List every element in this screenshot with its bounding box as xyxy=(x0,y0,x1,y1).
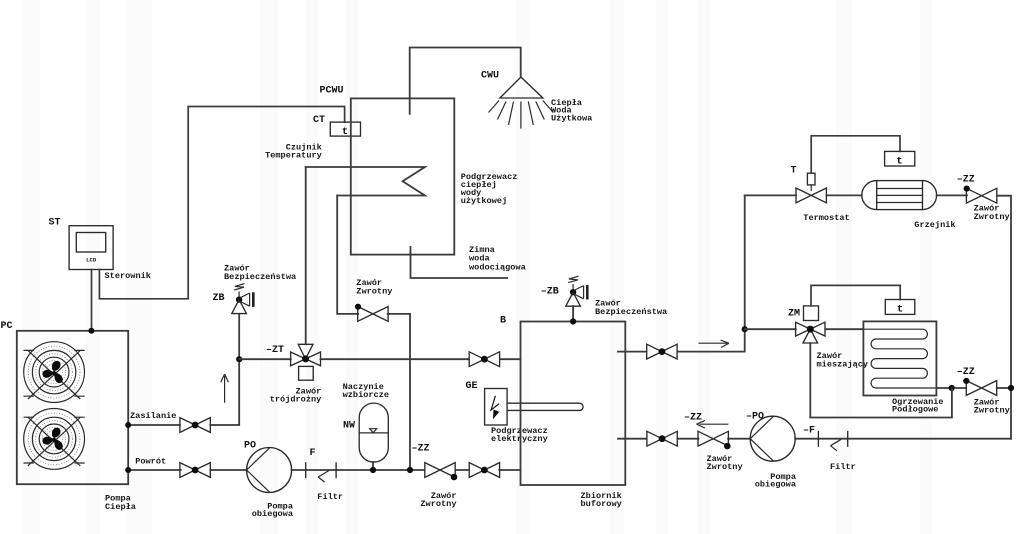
svg-text:Bezpieczeństwa: Bezpieczeństwa xyxy=(224,272,296,282)
svg-text:buforowy: buforowy xyxy=(581,499,622,509)
node trunk junction xyxy=(742,326,748,332)
wire ST to PC xyxy=(91,270,93,331)
svg-text:NW: NW xyxy=(343,421,355,432)
pipe coil supply riser xyxy=(305,167,307,344)
svg-text:–ZZ: –ZZ xyxy=(412,444,430,455)
PCWU tank xyxy=(351,98,455,254)
svg-text:–ZZ: –ZZ xyxy=(957,367,975,378)
pipe -ZB stub xyxy=(572,306,574,322)
node Zasilanie at PC xyxy=(125,422,131,428)
3-way valve -ZT xyxy=(291,344,321,366)
svg-text:trójdrożny: trójdrożny xyxy=(270,395,322,405)
heater GE box xyxy=(485,389,508,426)
riser ZB branch xyxy=(238,314,240,359)
shower head CWU xyxy=(500,77,543,98)
pump -PO xyxy=(750,416,795,461)
svg-text:T: T xyxy=(791,166,797,177)
floor heating serpentine xyxy=(863,329,936,388)
lightning bolt xyxy=(491,396,499,410)
buffer tank B xyxy=(521,322,626,486)
heating element in buffer xyxy=(507,403,583,410)
valve buffer supply out xyxy=(647,344,677,359)
filter -F xyxy=(818,431,847,447)
actuator box 3-way xyxy=(299,366,314,380)
svg-text:Zwrotny: Zwrotny xyxy=(356,286,392,296)
pipe Zasilanie xyxy=(128,359,239,425)
check valve ZZ radiator xyxy=(966,188,996,203)
pipe mixing bypass xyxy=(810,343,952,418)
pipe buffer right return xyxy=(618,438,1011,440)
svg-text:B: B xyxy=(500,316,506,327)
pipe radiator return down right trunk xyxy=(997,196,1011,439)
svg-text:Użytkowa: Użytkowa xyxy=(551,114,592,124)
svg-text:Zwrotny: Zwrotny xyxy=(420,499,456,509)
pipe coil return drop xyxy=(337,196,358,314)
actuator box ZM xyxy=(804,306,819,321)
svg-text:–PO: –PO xyxy=(746,412,764,423)
node right trunk junction xyxy=(1008,385,1014,391)
svg-text:t: t xyxy=(896,155,902,167)
svg-text:mieszający: mieszający xyxy=(817,360,869,370)
valve supply before buffer xyxy=(469,352,499,367)
svg-text:wzbiorcze: wzbiorcze xyxy=(343,390,389,400)
sensor t-box floor xyxy=(885,300,915,315)
expansion vessel NW xyxy=(359,403,388,462)
svg-text:GE: GE xyxy=(466,381,478,392)
pipe floor check to trunk xyxy=(997,387,1011,389)
svg-text:Temperatury: Temperatury xyxy=(265,151,322,161)
sensor CT box xyxy=(330,122,360,136)
thermostat valve T xyxy=(796,188,826,203)
node wire-PC xyxy=(88,328,94,334)
pipe radiator supply xyxy=(745,194,796,196)
node NW junction xyxy=(370,467,376,473)
svg-text:użytkowej: użytkowej xyxy=(461,196,507,206)
fan 1 xyxy=(23,342,84,403)
svg-text:ZB: ZB xyxy=(213,293,225,304)
svg-text:LCD: LCD xyxy=(86,257,97,264)
svg-text:F: F xyxy=(310,448,316,459)
floor heating box xyxy=(863,321,936,395)
svg-text:–ZZ: –ZZ xyxy=(957,175,975,186)
svg-text:Ciepła: Ciepła xyxy=(105,502,136,512)
svg-text:Zwrotny: Zwrotny xyxy=(707,462,743,472)
node floor return junction xyxy=(949,385,955,391)
svg-text:–F: –F xyxy=(803,426,815,437)
svg-text:ST: ST xyxy=(49,218,61,229)
pipe radiator to check valve xyxy=(937,194,967,196)
valve Powrot xyxy=(180,463,210,478)
svg-text:Termostat: Termostat xyxy=(803,213,849,223)
pipe supply main to 3way xyxy=(239,358,291,360)
svg-text:–ZZ: –ZZ xyxy=(684,413,702,424)
pump PO xyxy=(247,448,292,493)
svg-text:CWU: CWU xyxy=(481,71,499,82)
shower spray xyxy=(489,101,554,129)
pipe buffer right supply xyxy=(618,195,745,351)
heat pump PC box xyxy=(17,331,128,484)
node supply junction xyxy=(236,356,242,362)
svg-text:Filtr: Filtr xyxy=(317,492,343,502)
node Powrot at PC xyxy=(125,467,131,473)
svg-text:obiegowa: obiegowa xyxy=(755,480,796,490)
capillary T to t-box xyxy=(811,136,900,173)
controller ST box xyxy=(69,226,113,270)
safety valve ZB xyxy=(232,284,255,314)
pipe supply main to buffer xyxy=(321,358,521,360)
svg-text:–ZT: –ZT xyxy=(266,345,284,356)
valve return before buffer xyxy=(469,463,499,478)
arrow left flow xyxy=(697,420,729,428)
svg-text:t: t xyxy=(342,126,348,138)
node coil return junction xyxy=(407,467,413,473)
svg-text:CT: CT xyxy=(313,115,325,126)
pipe ZM branch xyxy=(745,328,796,330)
svg-text:Zwrotny: Zwrotny xyxy=(974,212,1010,222)
svg-text:Podłogowe: Podłogowe xyxy=(892,405,938,415)
svg-text:wodociągowa: wodociągowa xyxy=(469,262,526,272)
svg-text:obiegowa: obiegowa xyxy=(252,509,293,519)
svg-text:–ZB: –ZB xyxy=(541,286,559,297)
check valve ZZ coil return xyxy=(358,307,388,322)
svg-text:Filtr: Filtr xyxy=(830,462,856,472)
arrow right flow xyxy=(699,340,730,347)
filter F xyxy=(306,462,336,478)
pipe Powrot xyxy=(128,469,520,471)
svg-text:t: t xyxy=(897,304,903,316)
safety valve -ZB xyxy=(566,276,589,306)
valve Zasilanie xyxy=(180,418,210,433)
pipe NW stub xyxy=(372,462,374,470)
pipe coil return to crossing xyxy=(388,314,410,470)
svg-text:PCWU: PCWU xyxy=(320,86,344,97)
svg-text:Zasilanie: Zasilanie xyxy=(130,411,176,421)
svg-text:PO: PO xyxy=(244,441,256,452)
node at buffer top xyxy=(570,318,576,324)
node check valve ball xyxy=(355,304,361,310)
svg-text:Bezpieczeństwa: Bezpieczeństwa xyxy=(595,307,667,317)
pipe ZM to floor coil xyxy=(825,328,863,330)
svg-text:Powrót: Powrót xyxy=(135,457,166,467)
valve buffer return xyxy=(647,431,677,446)
radiator Grzejnik xyxy=(862,181,937,210)
pipe floor return xyxy=(936,387,966,389)
pipe CWU outlet to shower xyxy=(410,48,521,114)
mixing valve ZM xyxy=(796,322,825,343)
svg-text:Sterownik: Sterownik xyxy=(105,271,151,281)
check valve ZZ floor xyxy=(966,381,996,396)
svg-text:Grzejnik: Grzejnik xyxy=(914,220,955,230)
wire ST to CT sensor xyxy=(99,107,344,299)
fan 2 xyxy=(23,409,84,470)
check valve ZZ return xyxy=(425,463,455,478)
check valve ZZ before pump xyxy=(698,431,728,446)
svg-text:elektryczny: elektryczny xyxy=(491,434,548,444)
arrow up flow xyxy=(221,374,229,403)
capillary ZM to t-box xyxy=(811,285,900,306)
svg-text:PC: PC xyxy=(1,321,13,332)
pipe thermostat to radiator xyxy=(826,194,861,196)
pipe cold water inlet xyxy=(411,247,508,278)
sensor t-box radiator xyxy=(885,151,915,166)
svg-text:Zwrotny: Zwrotny xyxy=(974,406,1010,416)
heat exchanger coil in PCWU xyxy=(306,167,425,196)
svg-text:ZM: ZM xyxy=(788,309,800,320)
